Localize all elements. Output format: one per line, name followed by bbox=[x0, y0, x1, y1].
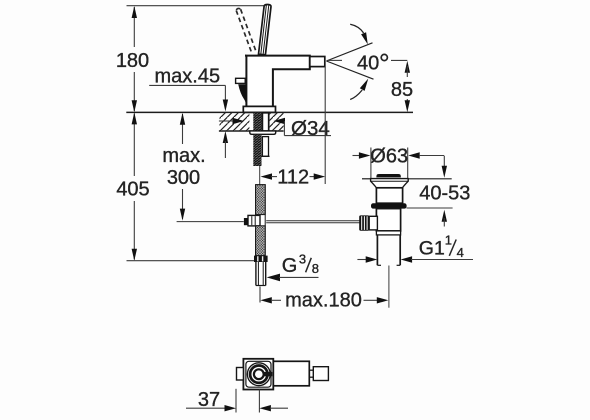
drain: rod connector bbox=[369, 216, 377, 230]
side tab on body bbox=[236, 78, 246, 83]
svg-text:Ø34: Ø34 bbox=[291, 117, 330, 140]
label Ø34 with arrows bbox=[219, 120, 234, 122]
upper arc arrow bbox=[350, 24, 363, 33]
pull-rod tube through deck bbox=[262, 113, 268, 131]
bottom view: inner square bbox=[246, 361, 271, 387]
svg-text:3: 3 bbox=[299, 252, 306, 267]
extension line flange bottom bbox=[407, 207, 453, 209]
wire: rod to left bbox=[177, 221, 244, 223]
bottom view: left tab bbox=[237, 368, 244, 381]
svg-text:112: 112 bbox=[277, 167, 309, 189]
svg-text:180: 180 bbox=[116, 50, 149, 72]
lower arc arrow bbox=[350, 90, 362, 100]
svg-text:8: 8 bbox=[312, 261, 319, 276]
drain: band joint bbox=[376, 231, 400, 235]
faucet: dashed lever (alternate position) bbox=[236, 8, 256, 52]
svg-text:max.180: max.180 bbox=[285, 290, 362, 312]
faucet body bbox=[245, 56, 310, 107]
dimension 40-53 bbox=[443, 156, 445, 168]
aerator at spout end bbox=[310, 57, 325, 67]
bottom view: body square bbox=[243, 359, 273, 390]
deck cross-section hatch left bbox=[220, 113, 250, 131]
drain: flange bbox=[371, 179, 409, 188]
countertop line right (drain) bbox=[362, 178, 371, 180]
threaded shank below washer bbox=[253, 134, 261, 166]
svg-text:max.45: max.45 bbox=[155, 66, 221, 88]
bottom view: right tab bbox=[313, 367, 328, 381]
deck cross-section hatch right bbox=[270, 113, 284, 131]
centerline between shank and hose bbox=[259, 166, 261, 185]
svg-text:Ø63: Ø63 bbox=[370, 145, 408, 167]
spray angle lines bbox=[326, 43, 372, 61]
faucet: solid lever bbox=[259, 4, 272, 54]
drain: Ø63 dimension bbox=[353, 155, 361, 157]
threaded bolt through deck bbox=[253, 113, 261, 131]
svg-text:40-53: 40-53 bbox=[419, 183, 470, 205]
drain centerline bbox=[388, 266, 390, 308]
dimension 180 bbox=[133, 7, 135, 111]
svg-text:G1: G1 bbox=[419, 237, 445, 259]
drain: knurled knob bbox=[359, 215, 369, 230]
svg-text:37: 37 bbox=[198, 389, 220, 411]
flexible hose outline bbox=[256, 185, 266, 256]
bottom view: concentric circles bbox=[247, 363, 270, 386]
dimension 112 bbox=[261, 173, 273, 179]
dimension 85 bbox=[405, 61, 410, 73]
drain: lower body bbox=[376, 209, 400, 231]
wire: rod to drain knob bbox=[266, 220, 359, 222]
drain: seal flange (black) bbox=[371, 203, 407, 208]
svg-text:40: 40 bbox=[357, 53, 379, 75]
svg-text:max.: max. bbox=[162, 145, 205, 167]
max.45 lower arrow (deck underside) bbox=[223, 131, 228, 143]
drain: cap bbox=[376, 174, 401, 177]
dimension 37 bbox=[235, 389, 237, 413]
drain: upper body bbox=[376, 188, 402, 203]
svg-text:4: 4 bbox=[457, 245, 464, 260]
svg-text:405: 405 bbox=[116, 179, 149, 201]
black wedge (pop-up rod side view) bbox=[238, 84, 246, 106]
wire: top extension line (lever tip level) bbox=[127, 5, 265, 7]
pull-rod below washer bbox=[262, 137, 268, 157]
bottom view: spout arm rectangle bbox=[244, 361, 309, 386]
escutcheon base plate bbox=[243, 106, 275, 112]
drain: tailpiece bbox=[377, 235, 400, 265]
wire: extension from aerator down to 112 line bbox=[324, 67, 326, 184]
svg-text:G: G bbox=[282, 255, 298, 277]
wire: 405 bottom extension line bbox=[127, 260, 255, 262]
bottom view: right neck bbox=[309, 369, 313, 371]
countertop line bbox=[126, 111, 413, 113]
braided hose upper section bbox=[256, 185, 266, 215]
deck bottom line bbox=[219, 130, 284, 132]
svg-text:300: 300 bbox=[167, 167, 200, 189]
hose fitting bbox=[248, 215, 260, 226]
braided hose lower section bbox=[256, 226, 266, 256]
svg-text:1: 1 bbox=[445, 233, 452, 248]
washer under deck bbox=[250, 131, 276, 134]
hose nut bbox=[254, 256, 268, 262]
svg-text:85: 85 bbox=[391, 79, 413, 101]
dimension max.300 bbox=[182, 114, 184, 219]
dimension 405 bbox=[133, 114, 135, 260]
threaded nipple G3/8 bbox=[256, 262, 266, 286]
dimension max.180 bbox=[259, 287, 261, 303]
